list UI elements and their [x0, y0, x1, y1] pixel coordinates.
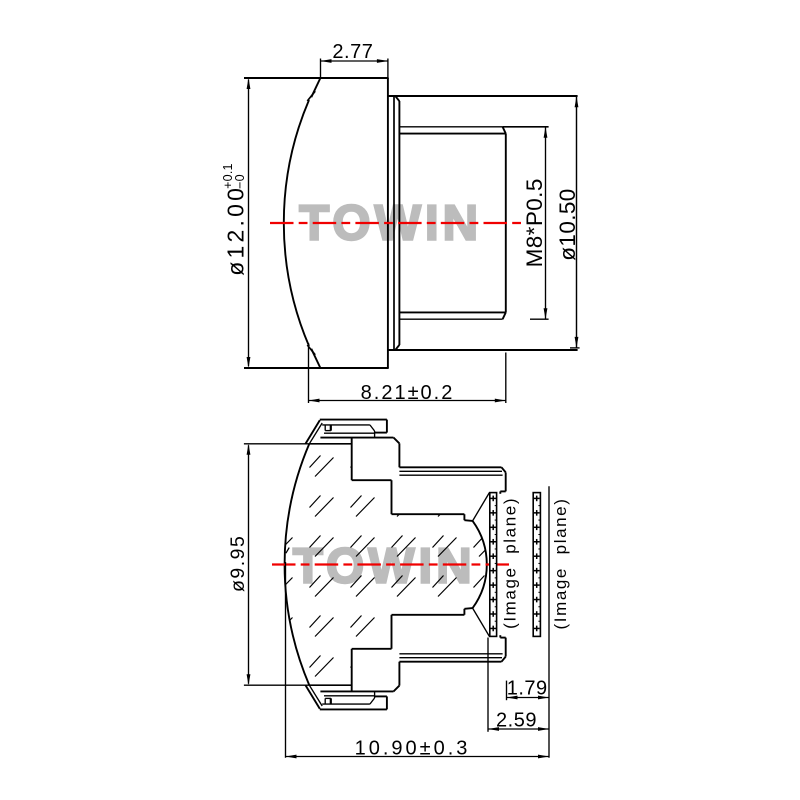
- element2 front face top: [351, 438, 353, 481]
- dimension dia 10.50 line with arrows: [576, 96, 578, 348]
- rear dome arc (section): [473, 521, 487, 608]
- housing thread-start face bottom: [398, 662, 400, 686]
- cap rim inner diagonal (thin) top: [370, 425, 375, 431]
- lens cap outline bottom edge: [244, 367, 389, 369]
- svg-text:−0: −0: [233, 174, 247, 189]
- glass edge cylinder top: [309, 443, 351, 445]
- housing thread-start face top: [398, 443, 400, 467]
- cap rim lip vertical (thin) top: [324, 425, 326, 431]
- barrel end chamfer bottom: [502, 657, 506, 662]
- front dome arc (section): [285, 444, 310, 685]
- dimension 1.79 extension line: [506, 681, 508, 701]
- cap rim lip edge bottom: [330, 698, 332, 704]
- red centerline (top view): [270, 222, 523, 224]
- flange chamfer top: [395, 96, 399, 101]
- cap rim step (thin) bottom: [374, 691, 376, 698]
- barrel wall inner line (thin) top: [399, 474, 502, 476]
- cap rim back edge bottom: [375, 695, 387, 697]
- cap rim inner line (thin) top: [322, 424, 370, 426]
- svg-text:8.21±0.2: 8.21±0.2: [361, 382, 455, 404]
- element2 front face bottom: [351, 649, 353, 692]
- barrel rebate nub top: [499, 491, 501, 493]
- svg-text:(Image plane): (Image plane): [551, 497, 570, 629]
- rear element edge face top: [463, 514, 465, 520]
- barrel wall mid line (thin) top: [399, 470, 502, 472]
- barrel rear rebate bottom: [500, 637, 505, 639]
- svg-text:10.90±0.3: 10.90±0.3: [355, 738, 471, 760]
- cap rim inner chamfer (thin) bottom: [309, 685, 322, 706]
- thread root line top: [399, 133, 505, 135]
- dome break mark: [286, 548, 289, 554]
- thread crest line top (thin): [399, 126, 502, 128]
- cap rim inner diagonal (thin) bottom: [370, 698, 375, 704]
- dimension 2.59 extension line: [487, 638, 489, 732]
- rear element corner bottom: [464, 607, 472, 610]
- lens dome break mark top: [307, 91, 315, 101]
- thread crest line bottom (thin): [399, 318, 502, 320]
- dimension dia 10.50 extension tick: [570, 347, 580, 349]
- cap rim front edge bottom: [320, 708, 387, 710]
- glass hatch region: [285, 444, 487, 685]
- svg-text:2.59: 2.59: [496, 709, 537, 731]
- element3 front face top: [391, 480, 393, 514]
- element3 edge cylinder top: [392, 513, 465, 515]
- dimension dia 9.95 extension lines: [244, 443, 309, 445]
- light cone line (thin) top: [473, 493, 490, 521]
- cap rim step (thin) top: [374, 431, 376, 438]
- lens dome break mark bottom: [307, 345, 315, 355]
- flange ring line: [393, 96, 395, 350]
- lens cap right face: [387, 78, 389, 368]
- svg-text:ø10.50: ø10.50: [555, 188, 580, 260]
- cap rim seat line (thin) top: [324, 432, 375, 434]
- element3 edge cylinder bottom: [392, 614, 465, 616]
- thread start face: [398, 101, 400, 345]
- cap rim outer chamfer bottom: [306, 685, 320, 709]
- dimension 2.77 extension lines: [320, 59, 322, 78]
- svg-text:1.79: 1.79: [507, 677, 548, 699]
- cap rim inner chamfer (thin) top: [309, 423, 322, 444]
- dimension M8*P0.5 line with arrows: [545, 128, 547, 319]
- dimension dia 12.00 +0.1/-0 text: [221, 163, 249, 275]
- cap rim lip bottom (thin) bottom: [325, 697, 331, 699]
- dimension 10.90 line with arrows: [286, 756, 550, 758]
- image plane sensor strip 2: [533, 493, 540, 637]
- cap rim back edge top: [375, 432, 387, 434]
- cap rim lip bottom (thin) top: [325, 430, 331, 432]
- lens dome spherical arc: [284, 100, 309, 346]
- cap rim front edge top: [320, 419, 387, 421]
- dimension dia 12.00 +0.1/-0 line with arrows: [248, 80, 250, 367]
- lens cap outline top edge: [244, 77, 389, 79]
- barrel wall outer line bottom: [399, 661, 501, 663]
- rear element corner top: [464, 519, 472, 522]
- cap rim outer face bottom: [386, 696, 388, 709]
- barrel rear face top: [505, 472, 507, 491]
- barrel rebate nub bottom: [499, 635, 501, 637]
- svg-text:(Image plane): (Image plane): [500, 497, 519, 629]
- cap rim seat line (thin) bottom: [324, 695, 375, 697]
- dimension 1.79 line with arrows: [507, 697, 550, 699]
- focal plane extension line: [548, 486, 550, 758]
- light cone line (thin) bottom: [473, 608, 490, 636]
- cap rim lip vertical (thin) bottom: [324, 698, 326, 704]
- thread end chamfer top: [503, 127, 506, 134]
- thread root line bottom: [399, 311, 505, 313]
- svg-text:M8*P0.5: M8*P0.5: [522, 178, 547, 267]
- svg-text:2.77: 2.77: [332, 41, 373, 63]
- svg-text:ø9.95: ø9.95: [227, 535, 249, 592]
- barrel wall inner line (thin) bottom: [399, 653, 502, 655]
- thread end face: [505, 134, 507, 313]
- dimension M8*P0.5 extension lines: [503, 126, 549, 128]
- barrel wall mid line (thin) bottom: [399, 657, 502, 659]
- lens dome chamfer top: [311, 78, 320, 97]
- element3 front face bottom: [391, 615, 393, 649]
- image plane sensor strip 1: [490, 493, 497, 637]
- housing bore line bottom: [320, 690, 393, 692]
- barrel rear rebate top: [500, 490, 505, 492]
- barrel wall outer line top: [399, 466, 501, 468]
- cap rim inner line (thin) bottom: [322, 703, 370, 705]
- dimension 8.21 line with arrows: [309, 400, 506, 402]
- glass edge cylinder bottom: [309, 684, 351, 686]
- svg-text:ø12.00: ø12.00: [223, 185, 249, 276]
- barrel end chamfer top: [502, 467, 506, 472]
- cap rim outer chamfer top: [306, 420, 320, 444]
- barrel top edge: [388, 95, 578, 97]
- barrel bottom edge: [388, 349, 578, 351]
- cap rim outer face top: [386, 420, 388, 433]
- red centerline (section view): [272, 563, 514, 565]
- flange chamfer bottom: [395, 345, 399, 350]
- dimension 2.77 line with arrows: [321, 60, 388, 62]
- dimension 8.21 extension lines: [308, 343, 310, 403]
- rear element edge face bottom: [463, 609, 465, 615]
- dimension 2.59 line with arrows: [488, 728, 549, 730]
- barrel rear face bottom: [505, 638, 507, 657]
- housing bore line top: [320, 437, 393, 439]
- cap rim lip edge top: [330, 425, 332, 431]
- lens dome chamfer bottom: [311, 349, 320, 368]
- thread end chamfer bottom: [503, 312, 506, 319]
- dimension 10.90 extension line left: [285, 562, 287, 758]
- housing chamfer top: [394, 438, 400, 444]
- dimension dia 9.95 line with arrows: [248, 445, 250, 683]
- element2 bore cylinder top: [352, 479, 392, 481]
- element2 bore cylinder bottom: [352, 648, 392, 650]
- housing chamfer bottom: [394, 686, 400, 692]
